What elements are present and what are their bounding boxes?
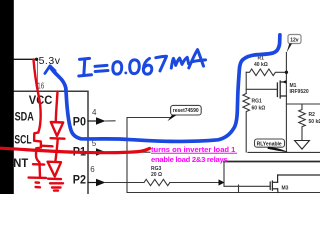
- svg-text:6: 6: [90, 165, 95, 174]
- svg-text:P0: P0: [73, 115, 86, 129]
- svg-text:SDA: SDA: [15, 109, 34, 123]
- svg-text:RLYenable: RLYenable: [257, 141, 282, 147]
- svg-text:RG1: RG1: [252, 99, 263, 105]
- svg-text:40 kΩ: 40 kΩ: [254, 62, 268, 68]
- svg-text:12v: 12v: [290, 37, 299, 43]
- svg-text:20 Ω: 20 Ω: [151, 172, 162, 178]
- svg-text:SCL: SCL: [14, 133, 31, 147]
- svg-text:enable load 2&3 relays: enable load 2&3 relays: [151, 155, 227, 164]
- svg-text:M3: M3: [282, 185, 289, 191]
- svg-text:turns on inverter load 1: turns on inverter load 1: [151, 145, 236, 154]
- svg-text:reset74590: reset74590: [173, 108, 199, 114]
- svg-text:R2: R2: [309, 112, 316, 118]
- svg-text:4: 4: [92, 108, 97, 117]
- svg-text:60 kΩ: 60 kΩ: [252, 106, 266, 112]
- svg-text:50 kΩ: 50 kΩ: [309, 119, 320, 125]
- svg-text:IRF9520: IRF9520: [290, 89, 309, 95]
- svg-text:P2: P2: [73, 173, 86, 187]
